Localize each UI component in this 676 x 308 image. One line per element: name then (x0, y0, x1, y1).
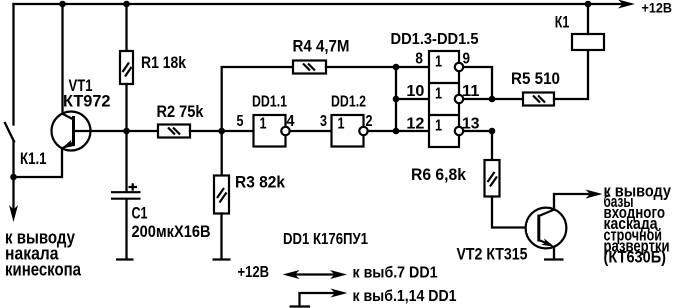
arrowhead left pin7 (283, 270, 300, 279)
wire pin11 (463, 98, 492, 100)
arrowhead kinescope (9, 205, 18, 222)
ground R3 (213, 258, 231, 260)
wire K1 to rail (587, 4, 589, 34)
svg-text:кинескопа: кинескопа (5, 260, 82, 280)
relay coil K1 (572, 34, 604, 50)
wire input bus vertical (395, 67, 397, 131)
wire VT1 base (75, 130, 127, 132)
wire R3 riser (221, 131, 223, 176)
arrowhead to output stage (586, 190, 603, 199)
resistor R5 (523, 93, 554, 106)
node bus-pin12 (393, 128, 400, 135)
wire R1 bottom (125, 84, 127, 131)
svg-text:200мкХ16В: 200мкХ16В (132, 222, 211, 241)
svg-text:К1.1: К1.1 (20, 149, 47, 168)
svg-text:5: 5 (237, 113, 244, 130)
svg-text:R2 75k: R2 75k (157, 102, 204, 121)
gate DD1.1 (254, 115, 290, 147)
wire DD1.2 to pin12 (368, 130, 429, 132)
relay contact K1.1 (5, 123, 14, 142)
resistor R1 (120, 51, 133, 84)
wire VT2 emitter down (553, 247, 555, 259)
svg-text:R5 510: R5 510 (511, 69, 560, 88)
wire R5 to K1 (554, 50, 588, 99)
wire C1 top (125, 131, 127, 191)
svg-text:3: 3 (320, 113, 327, 130)
svg-text:R3 82k: R3 82k (235, 173, 285, 192)
resistor R3 (214, 176, 229, 214)
capacitor C1 (111, 183, 141, 198)
ground bottom stub (290, 305, 311, 307)
node base junction (123, 128, 130, 135)
wire C1 bottom (125, 200, 127, 259)
svg-text:+12В: +12В (642, 0, 673, 16)
svg-text:4: 4 (287, 113, 295, 130)
arrowhead +12V rail (618, 0, 635, 9)
wire pin9 to output bus (463, 67, 492, 99)
transistor VT1 (52, 112, 91, 152)
svg-text:+12В: +12В (238, 264, 270, 281)
node rail-collector (59, 1, 66, 8)
wire R6 riser (491, 131, 493, 160)
wire R4 riser (222, 67, 293, 131)
ground VT2 (544, 258, 564, 260)
wire +12V top rail (14, 3, 627, 5)
svg-text:R4 4,7M: R4 4,7M (293, 37, 350, 56)
svg-text:DD1.3-DD1.5: DD1.3-DD1.5 (391, 31, 479, 48)
wire VT2 collector out (554, 194, 590, 210)
svg-text:VT2 КТ315: VT2 КТ315 (457, 245, 528, 264)
svg-text:DD1.2: DD1.2 (331, 94, 366, 111)
resistor R2 (158, 125, 190, 138)
svg-text:R1 18k: R1 18k (141, 53, 186, 72)
svg-text:к выб.1,14 DD1: к выб.1,14 DD1 (353, 288, 457, 305)
svg-text:DD1 К176ПУ1: DD1 К176ПУ1 (283, 231, 368, 248)
svg-text:1: 1 (435, 54, 442, 71)
wire base to R2 (127, 130, 159, 132)
transistor VT2 (526, 208, 567, 250)
wire left rail upper (12, 4, 14, 125)
svg-text:С1: С1 (132, 204, 148, 223)
svg-text:1: 1 (435, 86, 442, 103)
node out-R6 (489, 128, 496, 135)
wire R1 top (125, 4, 127, 51)
resistor R6 (485, 160, 500, 197)
resistor R4 (293, 61, 326, 74)
svg-text:2: 2 (366, 113, 373, 130)
svg-text:11: 11 (462, 83, 480, 100)
node K1.1-emitter (10, 174, 17, 181)
ground C1 (116, 258, 134, 260)
wire VT1 collector riser (61, 4, 63, 114)
svg-text:КТ972: КТ972 (63, 92, 111, 111)
wire VT1 emitter net (14, 148, 63, 177)
wire R6 to VT2 base (492, 197, 537, 228)
wire left rail lower (12, 142, 14, 178)
svg-text:К1: К1 (555, 13, 570, 32)
wire ground stub bottom (300, 293, 336, 307)
svg-text:8: 8 (415, 51, 423, 68)
svg-text:1: 1 (338, 116, 345, 133)
svg-text:к выб.7 DD1: к выб.7 DD1 (353, 265, 438, 282)
node bus-pin8 (393, 64, 400, 71)
wire double arrow pin7 (294, 273, 334, 275)
wire DD1.1 to DD1.2 (290, 130, 332, 132)
node rail-K1 (585, 1, 592, 8)
wire to R5 (492, 98, 523, 100)
wire R2 to DD1.1 (190, 130, 254, 132)
wire pin10 (396, 98, 429, 100)
wire R3 bottom (220, 214, 222, 259)
arrowhead pins 1,14 (331, 289, 348, 298)
svg-text:DD1.1: DD1.1 (252, 94, 287, 111)
svg-text:R6 6,8k: R6 6,8k (411, 165, 466, 184)
wire R4 to pin8 (326, 66, 429, 68)
node out-R5 (489, 96, 496, 103)
svg-text:9: 9 (463, 51, 471, 68)
node R2-R3-R4 junction (218, 128, 225, 135)
wire to kinescope arrow (12, 177, 14, 210)
node bus-pin10 (393, 96, 400, 103)
arrowhead right pin7 (330, 270, 347, 279)
svg-text:1: 1 (260, 116, 267, 133)
svg-text:12: 12 (406, 116, 424, 133)
svg-text:1: 1 (435, 118, 442, 135)
wire pin13 (463, 130, 492, 132)
svg-text:(КТ630Б): (КТ630Б) (604, 248, 667, 267)
node rail-R1 (123, 1, 130, 8)
gate DD1.2 (332, 115, 368, 147)
IC DD1.3-DD1.5 (429, 51, 463, 147)
svg-text:10: 10 (406, 83, 424, 100)
